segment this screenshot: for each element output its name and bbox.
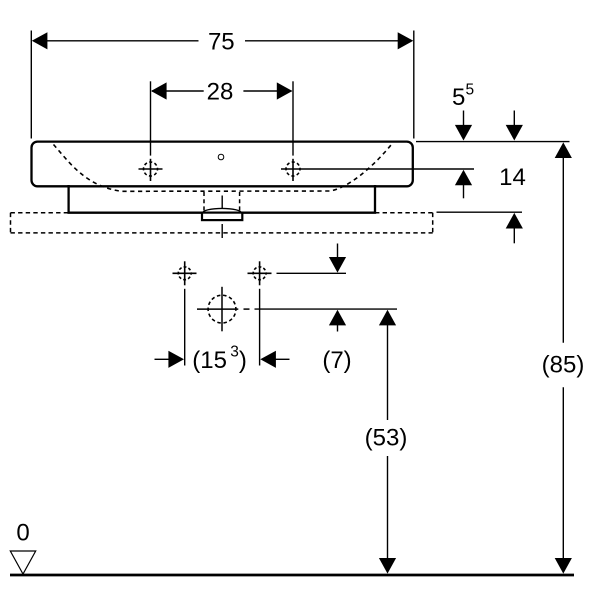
svg-text:(15: (15 bbox=[192, 347, 227, 374]
svg-text:5: 5 bbox=[466, 82, 475, 99]
dimension (85) label bbox=[542, 352, 585, 379]
dimension 5.5 lower arrow (up) bbox=[455, 170, 472, 199]
dimension (15.3) right arrow (pointing left) bbox=[260, 351, 289, 368]
reference line drain outlet extended right bbox=[255, 308, 398, 310]
faucet hole left (dashed circle with crosshair) bbox=[139, 159, 163, 181]
dimension 28 label bbox=[207, 79, 234, 106]
pedestal / apron below basin bbox=[69, 185, 375, 213]
drain trap flange rectangle bbox=[202, 213, 242, 221]
dimension (53) label bbox=[365, 425, 408, 452]
dimension (15.3) left arrow (pointing right) bbox=[155, 351, 185, 368]
svg-text:14: 14 bbox=[499, 164, 526, 191]
basin bowl hidden outline (dashed) bbox=[54, 145, 392, 192]
dimension 75 extension line right bbox=[413, 31, 415, 139]
svg-text:(7): (7) bbox=[322, 347, 351, 374]
reference line bolt holes extended right bbox=[277, 272, 347, 274]
dimension (15.3) extension line left bbox=[184, 289, 186, 366]
overflow hole circle bbox=[218, 154, 224, 160]
dimension 75 line and arrows bbox=[32, 32, 414, 49]
svg-text:(53): (53) bbox=[365, 425, 408, 452]
svg-text:3: 3 bbox=[230, 344, 239, 361]
dimension (7) upper arrow (down) bbox=[329, 244, 346, 273]
dimension 75 label bbox=[208, 29, 235, 56]
svg-text:0: 0 bbox=[16, 520, 29, 547]
faucet hole right (dashed circle with crosshair) bbox=[286, 159, 300, 181]
dimension 5.5 upper arrow (down) bbox=[455, 111, 472, 141]
svg-text:(85): (85) bbox=[542, 352, 585, 379]
svg-text:28: 28 bbox=[207, 79, 234, 106]
dimension (15.3) extension line right bbox=[259, 289, 261, 366]
datum triangle symbol bbox=[10, 551, 35, 574]
drain centerline bbox=[221, 196, 223, 239]
dimension (7) label bbox=[322, 347, 351, 374]
reference line countertop top extended right bbox=[437, 211, 523, 213]
reference line basin top extended right bbox=[416, 141, 570, 143]
reference line through faucet holes extended right bbox=[281, 168, 474, 170]
dimension 28 extension line right bbox=[292, 81, 294, 155]
drain trap dome bbox=[203, 208, 242, 213]
dimension (53) line with arrows bbox=[379, 310, 396, 574]
dimension (85) line with arrows bbox=[555, 142, 572, 573]
dimension (7) lower arrow (up) bbox=[329, 310, 346, 332]
svg-text:75: 75 bbox=[208, 29, 235, 56]
dimension 14 lower arrow (up) bbox=[506, 213, 523, 243]
drain pipe outlet (dashed circle with crosshair) bbox=[197, 287, 250, 332]
washbasin body outline bbox=[32, 142, 413, 187]
mounting bolt hole right (dashed circle with crosshair) bbox=[248, 261, 272, 285]
hidden drain hole dashed lines bbox=[204, 192, 240, 212]
dimension 14 label bbox=[499, 164, 526, 191]
countertop dashed outline bbox=[11, 213, 433, 233]
dimension 5.5 label bbox=[452, 82, 474, 112]
mounting bolt hole left (dashed circle with crosshair) bbox=[173, 261, 197, 285]
dimension 28 extension line left bbox=[150, 81, 152, 155]
floor line bbox=[10, 574, 574, 577]
datum zero label bbox=[16, 520, 29, 547]
dimension (15.3) label bbox=[192, 344, 247, 375]
svg-text:5: 5 bbox=[452, 84, 465, 111]
dimension 75 extension line left bbox=[30, 31, 32, 139]
dimension 28 line and arrows bbox=[151, 82, 292, 99]
svg-text:): ) bbox=[239, 347, 247, 374]
dimension 14 upper arrow (down) bbox=[506, 111, 523, 141]
